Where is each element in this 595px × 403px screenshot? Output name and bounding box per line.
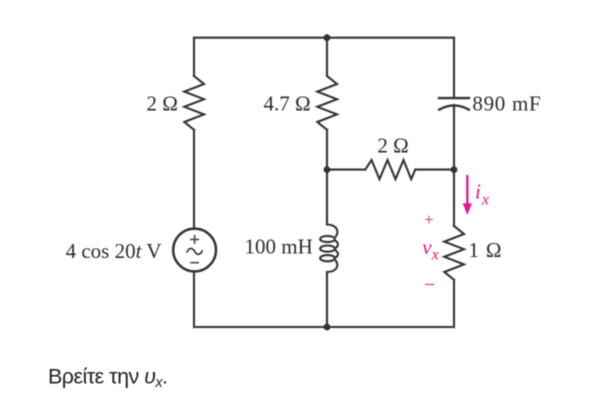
svg-text:−: − [424,274,435,296]
svg-text:Βρείτε την υx.: Βρείτε την υx. [48,364,167,391]
svg-text:4.7 Ω: 4.7 Ω [263,91,310,115]
svg-text:vx: vx [422,235,438,264]
svg-text:2 Ω: 2 Ω [377,133,408,157]
svg-text:890 mF: 890 mF [472,91,541,115]
svg-text:1 Ω: 1 Ω [469,238,503,262]
svg-text:2 Ω: 2 Ω [146,91,177,115]
svg-text:ix: ix [475,180,489,209]
svg-text:100 mH: 100 mH [245,235,313,259]
svg-text:+: + [424,210,434,229]
svg-text:4 cos 20t V: 4 cos 20t V [66,239,162,263]
